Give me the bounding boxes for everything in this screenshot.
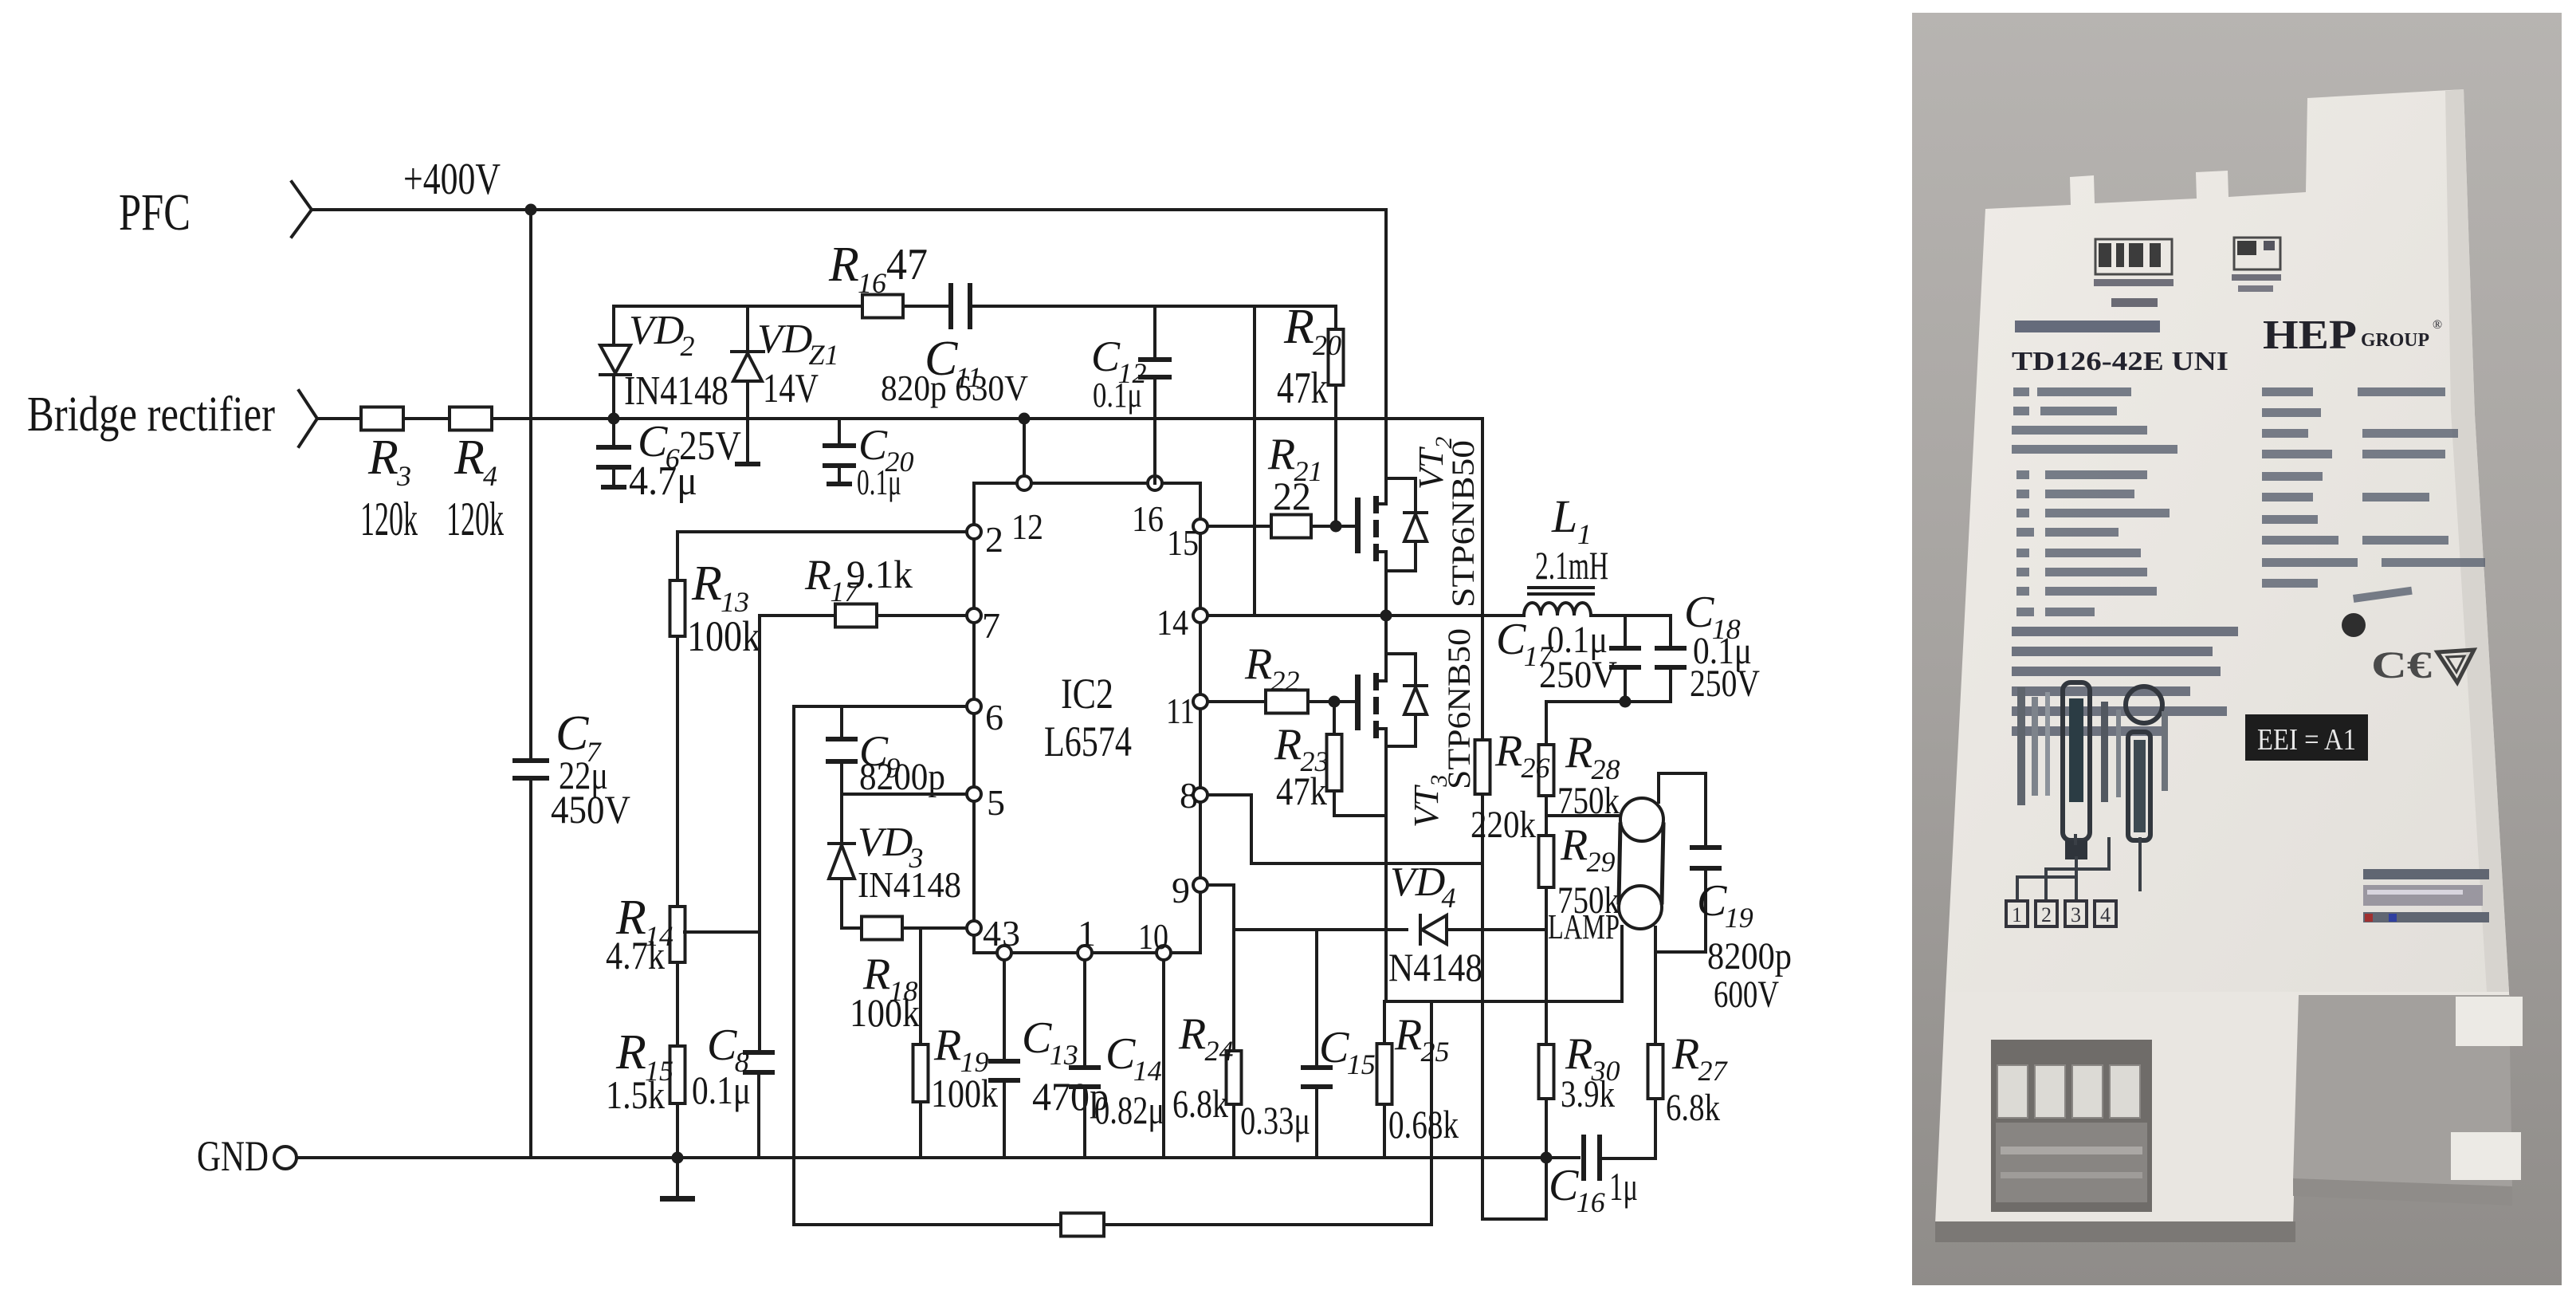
resistor R16 47	[862, 295, 903, 318]
GND terminal	[274, 1147, 296, 1169]
pin 6	[967, 699, 981, 714]
svg-text:4: 4	[483, 460, 497, 492]
svg-text:2.1mH: 2.1mH	[1535, 543, 1608, 588]
svg-text:10: 10	[1138, 916, 1168, 957]
wire pin6 row	[794, 705, 967, 708]
svg-text:R: R	[1494, 726, 1522, 776]
svg-text:STP6NB50: STP6NB50	[1445, 440, 1481, 608]
resistor R21 22	[1271, 515, 1311, 538]
svg-text:450V: 450V	[551, 787, 630, 832]
svg-text:R: R	[933, 1021, 961, 1070]
pin 10	[1156, 946, 1171, 960]
wire lamp upper-right to C19	[1659, 773, 1706, 847]
svg-text:250V: 250V	[1539, 654, 1617, 696]
svg-text:25: 25	[1420, 1036, 1449, 1068]
capacitor C9 8200p	[840, 706, 843, 738]
junction R30 ground rail	[1541, 1152, 1553, 1164]
svg-text:R: R	[1283, 300, 1314, 354]
svg-text:14V: 14V	[763, 366, 819, 411]
svg-text:0.33μ: 0.33μ	[1240, 1098, 1310, 1143]
wire VT3 source node row	[1384, 1000, 1622, 1003]
svg-text:R: R	[804, 551, 831, 599]
photo: terminal number boxes 1 2 3 4	[2006, 901, 2028, 926]
svg-text:IN4148: IN4148	[624, 368, 728, 414]
svg-text:4: 4	[1441, 882, 1455, 914]
svg-text:HEP: HEP	[2263, 313, 2357, 358]
svg-text:0.68k: 0.68k	[1388, 1102, 1459, 1147]
svg-text:24: 24	[1204, 1035, 1233, 1067]
svg-text:R: R	[1565, 1029, 1592, 1079]
svg-text:VD: VD	[1390, 859, 1445, 905]
svg-text:6.8k: 6.8k	[1172, 1081, 1228, 1126]
svg-text:R: R	[615, 1025, 646, 1080]
wire lamp lower-right / R27	[1654, 927, 1657, 1044]
svg-text:2: 2	[680, 330, 694, 362]
pin 3	[997, 946, 1011, 960]
svg-text:820p 630V: 820p 630V	[881, 368, 1028, 408]
svg-text:2: 2	[985, 519, 1003, 560]
svg-text:C: C	[1549, 1161, 1579, 1210]
svg-text:3: 3	[1002, 913, 1020, 954]
svg-text:29: 29	[1586, 846, 1615, 878]
junction VD2 / C6 / bridge rail	[608, 413, 620, 425]
svg-text:0.1μ: 0.1μ	[1093, 376, 1142, 415]
svg-text:C: C	[1091, 332, 1121, 380]
wire pin16 to C12	[1153, 476, 1156, 483]
photo: right spec column blur rows	[2262, 387, 2313, 396]
photo: lamp diagram wires to terminals	[2017, 834, 2140, 899]
IC2 L6574 body	[974, 483, 1200, 953]
svg-text:14: 14	[1156, 602, 1188, 643]
svg-text:16: 16	[858, 267, 886, 299]
capacitor C20 0.1u	[838, 419, 841, 445]
capacitor C12 0.1u	[1153, 306, 1156, 359]
wire second rail (bootstrap)	[615, 305, 862, 308]
svg-text:8200p: 8200p	[859, 756, 945, 798]
svg-text:R: R	[1274, 720, 1302, 769]
wire bootstrap to pin14 node	[1253, 306, 1256, 616]
svg-text:1μ: 1μ	[1609, 1164, 1638, 1209]
svg-text:C: C	[1697, 876, 1727, 926]
svg-text:VD: VD	[858, 820, 913, 865]
wire R14 to R17 branch	[685, 930, 760, 934]
svg-text:47k: 47k	[1277, 364, 1328, 413]
svg-text:0.1μ: 0.1μ	[857, 462, 901, 502]
svg-text:22: 22	[1273, 474, 1311, 518]
wire half-bridge midpoint	[1380, 610, 1392, 622]
svg-text:C€: C€	[2371, 644, 2432, 686]
capacitor C6 4.7u 25V	[612, 419, 615, 446]
svg-text:15: 15	[1347, 1048, 1376, 1080]
pin 15	[1193, 519, 1207, 533]
svg-text:TD126-42E UNI: TD126-42E UNI	[2012, 347, 2228, 376]
svg-text:16: 16	[1132, 498, 1164, 539]
wire pin5 row	[842, 793, 967, 796]
capacitor C16 1u	[1581, 1135, 1586, 1181]
capacitor C8 0.1u	[743, 1050, 775, 1055]
svg-text:R: R	[1394, 1010, 1422, 1060]
photo: EEI = A1 badge	[2245, 714, 2368, 761]
pin 1	[1078, 946, 1092, 960]
svg-text:C: C	[1105, 1029, 1136, 1079]
svg-text:120k: 120k	[446, 493, 504, 545]
svg-text:3: 3	[2071, 903, 2081, 926]
photo: lower-right mini label	[2363, 869, 2489, 879]
resistor R4	[450, 407, 492, 431]
svg-text:Bridge rectifier: Bridge rectifier	[27, 387, 275, 442]
svg-text:15: 15	[1167, 522, 1199, 563]
pin 12	[1017, 476, 1031, 490]
pin 4	[967, 921, 981, 935]
photo: left paragraph blur rows	[2012, 627, 2238, 636]
PFC input terminal arrow	[292, 182, 312, 237]
lamp tube	[1620, 798, 1663, 841]
wire pin9 current sense row (VD4 row)	[1234, 928, 1407, 931]
svg-text:26: 26	[1521, 752, 1549, 784]
capacitor C15 0.33u	[1315, 930, 1318, 1067]
resistor R13 100k	[676, 532, 679, 580]
svg-text:5: 5	[987, 782, 1005, 823]
svg-text:250V: 250V	[1690, 663, 1760, 705]
wire feedback riser to VT3 source node	[1430, 1001, 1433, 1225]
resistor R29 750k	[1539, 836, 1554, 887]
wire pin7 row / R17 9.1k	[877, 614, 967, 617]
svg-text:27: 27	[1698, 1055, 1728, 1087]
junction R20 / gate wire VT2	[1330, 521, 1342, 533]
pin 14	[1193, 608, 1207, 623]
svg-text:L6574: L6574	[1044, 718, 1132, 765]
svg-text:19: 19	[1725, 902, 1753, 934]
svg-text:11: 11	[1166, 690, 1195, 731]
photo: right lower tabs	[2456, 997, 2523, 1046]
svg-text:IN4148: IN4148	[858, 864, 961, 905]
resistor R15 1.5k	[670, 1046, 685, 1103]
junction ground / R15	[672, 1152, 684, 1164]
svg-text:+400V: +400V	[403, 155, 501, 204]
resistor R24 6.8k	[1232, 930, 1235, 1051]
svg-text:VD: VD	[757, 317, 812, 362]
resistor R27 6.8k	[1648, 1044, 1663, 1099]
resistor R26 220k	[1481, 419, 1484, 740]
svg-text:100k: 100k	[850, 990, 920, 1035]
svg-text:47k: 47k	[1276, 769, 1327, 813]
capacitor C18 0.1u 250V	[1669, 616, 1672, 647]
resistor R23 47k	[1333, 702, 1336, 734]
Bridge rectifier input arrow	[299, 391, 317, 446]
svg-text:IC2: IC2	[1061, 670, 1113, 718]
capacitor C7	[529, 210, 532, 760]
svg-text:C: C	[707, 1021, 737, 1070]
pin 5	[967, 787, 981, 801]
svg-text:4.7k: 4.7k	[606, 933, 665, 977]
svg-text:20: 20	[1313, 329, 1341, 361]
svg-text:N4148: N4148	[1388, 945, 1482, 989]
transistor VT2 STP6NB50	[1355, 498, 1361, 553]
photo: product name text	[2015, 321, 2160, 332]
svg-text:1: 1	[1078, 913, 1096, 954]
resistor R28 750k	[1545, 702, 1548, 745]
svg-text:8200p: 8200p	[1707, 935, 1792, 977]
wire VT2 gate drive row from pin15	[1207, 525, 1271, 528]
photo: recycle triangle	[2437, 650, 2474, 682]
resistor R25 0.68k	[1383, 1001, 1386, 1044]
wire pin11 row to VT3 gate	[1207, 700, 1266, 703]
svg-text:R: R	[1267, 430, 1295, 479]
svg-text:C: C	[1496, 615, 1526, 664]
svg-text:6.8k: 6.8k	[1666, 1087, 1720, 1129]
svg-text:R: R	[1565, 728, 1592, 777]
svg-text:22: 22	[1270, 665, 1299, 697]
photo: connector terminals	[1997, 1065, 2028, 1118]
wire pin6 feedback drop	[792, 706, 795, 1225]
capacitor C19 8200p 600V	[1690, 845, 1722, 850]
svg-text:L: L	[1551, 490, 1577, 542]
wire R26 bottom link	[1482, 1217, 1546, 1221]
svg-text:GROUP: GROUP	[2361, 330, 2429, 351]
svg-text:2: 2	[2041, 903, 2052, 926]
svg-text:14: 14	[1133, 1055, 1162, 1087]
svg-text:12: 12	[1011, 506, 1043, 547]
junction gate / R23	[1329, 696, 1341, 708]
svg-text:®: ®	[2433, 318, 2442, 332]
wire pin12 to 14V rail	[1023, 419, 1026, 476]
pin 2	[967, 525, 981, 539]
pin 11	[1193, 694, 1207, 709]
svg-text:4: 4	[2100, 903, 2111, 926]
resistor R19 100k	[919, 928, 922, 1044]
wire resonant node	[1546, 700, 1671, 703]
diode VD3 IN4148	[840, 794, 843, 844]
wire lamp lower-left lead	[1620, 926, 1624, 1001]
photo: lamp wiring diagram	[2017, 687, 2025, 805]
svg-text:R: R	[691, 557, 722, 611]
svg-text:LAMP: LAMP	[1548, 907, 1620, 946]
photo: left spec table blur rows	[2013, 387, 2029, 396]
svg-text:C: C	[1022, 1013, 1052, 1063]
capacitor C13 470p	[1003, 960, 1006, 1060]
node +400V rail from PFC	[312, 208, 1386, 211]
svg-text:7: 7	[982, 605, 1000, 646]
wire bridge rectifier rail	[317, 417, 361, 420]
svg-text:220k: 220k	[1471, 804, 1536, 846]
pin 16	[1148, 476, 1162, 490]
pin 9	[1193, 878, 1207, 892]
photo: body right edge shade	[2445, 89, 2509, 992]
svg-text:100k: 100k	[687, 612, 760, 660]
capacitor C17 0.1u 250V	[1624, 616, 1627, 647]
svg-text:0.82μ: 0.82μ	[1094, 1088, 1164, 1132]
svg-text:16: 16	[1577, 1186, 1605, 1218]
pin 7	[967, 608, 981, 623]
photo: body bottom front face	[1935, 992, 2511, 1224]
resistor R18 100k	[842, 926, 862, 930]
wire pin6 feedback bottom run	[794, 1223, 1061, 1226]
inductor L1 2.1mH	[1524, 603, 1591, 616]
svg-text:120k: 120k	[360, 493, 418, 545]
svg-text:R: R	[828, 238, 859, 292]
svg-text:4.7μ: 4.7μ	[629, 458, 697, 504]
svg-text:3.9k: 3.9k	[1561, 1073, 1615, 1115]
capacitor C11 820p 630V	[948, 283, 953, 329]
ground rail	[297, 1156, 1579, 1159]
feedback series resistor	[1061, 1213, 1104, 1237]
svg-text:9.1k: 9.1k	[846, 552, 913, 596]
svg-text:100k: 100k	[931, 1071, 998, 1115]
wire pin8 to R26	[1207, 795, 1482, 863]
photo: top barcode marks	[2095, 239, 2172, 274]
wire R28-R29 / lamp upper lead	[1545, 796, 1548, 836]
resistor R20 47k	[1334, 306, 1337, 329]
svg-text:8: 8	[1180, 775, 1198, 816]
svg-text:STP6NB50: STP6NB50	[1441, 628, 1477, 789]
resistor R22	[1266, 690, 1308, 714]
pin 8	[1193, 788, 1207, 802]
svg-text:0.1μ: 0.1μ	[692, 1068, 751, 1112]
svg-text:PFC: PFC	[119, 183, 190, 242]
ground symbol	[676, 1158, 679, 1198]
svg-text:3: 3	[396, 460, 411, 492]
svg-text:600V: 600V	[1714, 973, 1779, 1016]
svg-text:R: R	[1560, 820, 1588, 870]
svg-text:R: R	[1178, 1009, 1206, 1059]
svg-text:1.5k: 1.5k	[606, 1072, 665, 1117]
resistor R3	[361, 407, 403, 431]
svg-text:1: 1	[2012, 903, 2022, 926]
wire pin14 row	[1207, 614, 1386, 617]
resistor R14 4.7k	[670, 907, 685, 962]
wire pin2 row	[677, 530, 967, 533]
photo: connector opening	[1991, 1040, 2152, 1212]
svg-text:6: 6	[985, 697, 1003, 737]
svg-text:C: C	[1319, 1023, 1349, 1072]
svg-text:VD: VD	[629, 308, 684, 353]
svg-text:R: R	[454, 431, 485, 485]
svg-text:9: 9	[1172, 870, 1190, 911]
wire pin10 to ground rail	[1162, 960, 1165, 1158]
svg-text:GND: GND	[197, 1132, 269, 1180]
wire pin9 branch	[1207, 885, 1234, 930]
svg-text:R: R	[1671, 1029, 1699, 1079]
wire R17 left branch down	[758, 616, 761, 1052]
junction +400V / C7	[525, 204, 537, 216]
zener diode VDZ1 14V	[746, 306, 749, 352]
svg-text:R: R	[1244, 639, 1272, 689]
diode VD4 N4148	[1419, 915, 1422, 944]
capacitor C14 0.82u	[1083, 960, 1086, 1067]
svg-text:R: R	[367, 431, 399, 485]
diode VD2 IN4148	[612, 306, 615, 345]
transistor VT3 STP6NB50	[1355, 675, 1361, 730]
photo: ballast white body	[1946, 89, 2509, 992]
photo: temperature mark and dot	[2353, 587, 2413, 603]
svg-text:47: 47	[886, 240, 928, 289]
svg-text:EEI = A1: EEI = A1	[2257, 723, 2356, 757]
resistor R30 3.9k	[1539, 1044, 1554, 1099]
